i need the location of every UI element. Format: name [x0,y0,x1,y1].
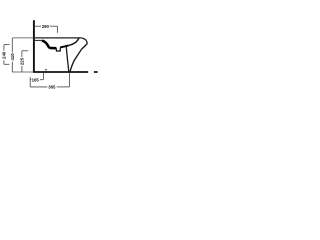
floor level extension line to dims [12,71,33,73]
dim 225 top tick [22,50,28,52]
svg-text:240: 240 [2,51,7,59]
dim 410 vertical upper [11,38,13,53]
svg-text:165: 165 [32,77,40,82]
small mark above floor [45,69,46,70]
dim 240 top tick [4,44,9,46]
bowl bottom [49,47,56,50]
dim 165 line left segment [30,79,31,81]
dim 410 vertical lower [11,62,13,72]
bottom dims shared left vertical [29,77,31,87]
dim 365 line right segment [57,86,70,88]
wall line [33,20,35,72]
deck line [35,39,42,41]
dim 290 line right segment [50,25,58,27]
svg-text:365: 365 [48,85,56,90]
svg-text:410: 410 [10,53,15,61]
dim 290 line left segment [35,25,42,27]
dim 165 riser [42,73,44,80]
dim 365 riser [69,73,71,87]
pedestal left edge [66,46,69,72]
dim 240 vertical lower [3,60,5,64]
floor line [33,71,88,73]
bowl front interior arc [60,46,68,48]
front lip curve [82,38,88,44]
dim 225 vertical lower [21,66,23,72]
rear bowl curve [42,41,50,48]
rim top line with front lip [35,37,82,39]
drain notch [56,47,60,51]
svg-text:290: 290 [42,24,50,29]
dim 165 line right segment [40,79,43,81]
dim 365 line left segment [30,86,47,88]
svg-text:225: 225 [20,57,25,65]
floor line dash right [94,71,98,73]
dim 240 vertical upper [3,45,5,51]
dim 240 bottom tick [4,63,9,65]
dim 225 vertical upper [21,51,23,57]
dim 290 riser [56,26,58,33]
dim 410 extension to wall [12,37,33,39]
front face [70,44,87,72]
